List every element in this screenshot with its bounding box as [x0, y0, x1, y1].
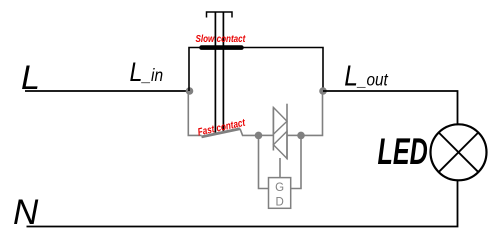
fast contact blade kink — [240, 129, 259, 136]
node triac left — [255, 132, 263, 140]
svg-text:D: D — [275, 196, 283, 208]
svg-text:Fast contact: Fast contact — [196, 116, 246, 138]
wire left node down to driver box — [259, 135, 269, 188]
wire lamp bottom to N — [27, 180, 458, 226]
svg-text:N: N — [13, 193, 39, 232]
slow contact bar — [202, 45, 242, 50]
actuator T-bar — [207, 12, 233, 18]
wire L feed — [25, 90, 187, 92]
lamp cross — [439, 133, 479, 173]
actuator shaft right — [222, 12, 224, 133]
svg-text:Slow contact: Slow contact — [196, 33, 247, 44]
svg-text:L_out: L_out — [344, 60, 389, 92]
svg-text:G: G — [275, 182, 284, 194]
triac lower triangle — [273, 131, 287, 158]
wire L_out to lamp — [323, 91, 458, 124]
node L_in — [186, 87, 194, 95]
node L_out — [319, 87, 327, 95]
wire right node down to driver box — [291, 135, 301, 188]
triac right bar — [286, 104, 288, 160]
wire L_in to slow contact — [189, 48, 201, 92]
actuator shaft left — [214, 12, 216, 134]
lamp circle — [431, 124, 487, 180]
svg-text:LED: LED — [378, 130, 428, 172]
wire slow contact to L_out corner — [242, 48, 324, 92]
wire triac right bar to node — [287, 134, 301, 136]
driver box G D — [269, 178, 291, 209]
triac left bar — [272, 107, 274, 150]
wire node to triac left bar — [259, 134, 274, 136]
fast contact blade — [202, 129, 241, 137]
triac upper triangle — [273, 107, 287, 134]
gate wire to driver box — [279, 158, 281, 178]
node triac right — [297, 132, 305, 140]
wire triac right node to L_out node — [301, 91, 323, 135]
wire L_in down to fast contact (gray) — [188, 91, 201, 135]
svg-text:L_in: L_in — [130, 57, 164, 87]
